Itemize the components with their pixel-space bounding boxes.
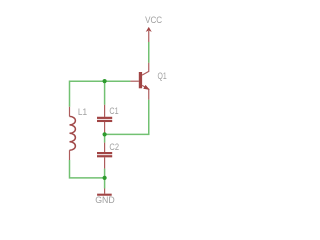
- svg-text:Q1: Q1: [158, 70, 167, 81]
- wire C1-C2 junction: [104, 134, 106, 142]
- wire base net: Q1 base to L1 top and C1 top: [70, 81, 131, 107]
- svg-text:L1: L1: [78, 106, 87, 117]
- inductor L1: [70, 107, 76, 160]
- base pin: [130, 80, 139, 82]
- wire junction to C1 top: [104, 81, 106, 105]
- node junction C1/C2/emitter: [103, 132, 107, 136]
- emitter arrow: [144, 86, 149, 90]
- wire VCC to collector: [148, 42, 150, 63]
- svg-text:GND: GND: [95, 194, 115, 205]
- svg-text:C1: C1: [109, 105, 118, 116]
- emitter pin: [142, 85, 149, 99]
- node junction base/C1: [103, 79, 107, 83]
- transistor Q1: [130, 63, 148, 100]
- svg-text:C2: C2: [109, 141, 119, 152]
- capacitor C2: [97, 143, 112, 169]
- ground symbol: [97, 189, 112, 195]
- node junction GND net: [103, 176, 107, 180]
- svg-text:VCC: VCC: [145, 14, 162, 25]
- wire emitter feedback net: [105, 100, 149, 135]
- power VCC symbol: [146, 27, 152, 42]
- collector pin: [142, 63, 149, 75]
- wire L1 bottom to GND net: [70, 160, 105, 178]
- capacitor C1: [97, 105, 112, 133]
- base bar: [139, 72, 142, 88]
- wire C2 bottom to GND: [104, 169, 106, 189]
